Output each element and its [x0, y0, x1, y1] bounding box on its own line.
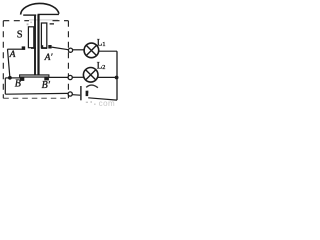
svg-text:A: A — [9, 50, 16, 60]
svg-text:com: com — [99, 99, 116, 107]
svg-text:B: B — [15, 79, 21, 90]
svg-text:S: S — [17, 29, 23, 40]
svg-text:A′: A′ — [44, 53, 54, 63]
svg-text:B′: B′ — [42, 80, 51, 91]
